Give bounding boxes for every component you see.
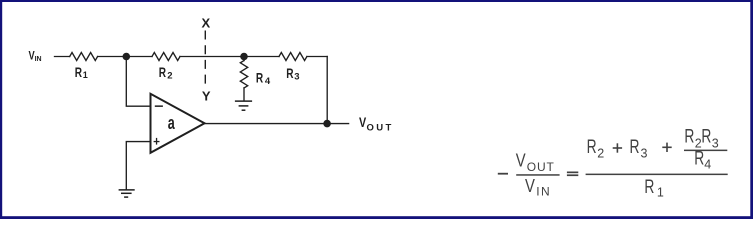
svg-text:R: R [644, 176, 654, 198]
ground under op-amp non-inverting input [119, 190, 135, 197]
svg-text:R: R [256, 70, 263, 86]
svg-text:3: 3 [641, 147, 648, 161]
svg-text:V: V [525, 175, 535, 196]
resistor R4 [240, 61, 247, 89]
ground under R4 [235, 101, 252, 110]
svg-text:3: 3 [294, 72, 299, 83]
svg-text:R: R [694, 148, 704, 170]
svg-text:IN: IN [35, 56, 42, 63]
wire op-amp output [205, 123, 349, 125]
label VOUT [359, 114, 391, 133]
formula: VOUT numerator [516, 150, 555, 175]
svg-text:1: 1 [83, 70, 88, 80]
label R2 [159, 64, 173, 81]
formula: equals sign [567, 172, 578, 177]
svg-text:OUT: OUT [527, 160, 555, 174]
wire non-inverting input [126, 142, 150, 190]
svg-text:R: R [684, 126, 694, 148]
label VIN [29, 49, 42, 63]
svg-text:R: R [587, 136, 597, 158]
node A junction dot [123, 53, 131, 61]
resistor R1 [70, 53, 98, 61]
formula: VOUT/VIN fraction bar [516, 174, 559, 176]
svg-text:R: R [75, 64, 82, 80]
svg-text:Y: Y [202, 89, 211, 104]
formula: R2R3 sub-numerator [684, 126, 718, 151]
border frame (left) [0, 0, 2, 219]
border frame (top) [0, 0, 753, 2]
wire node A to R2 [126, 56, 152, 58]
wire R4 to ground [243, 88, 245, 100]
label R1 [75, 64, 88, 80]
op-amp non-inverting input plus marker [154, 138, 160, 145]
svg-text:X: X [202, 15, 211, 30]
wire VIN lead [55, 56, 70, 58]
node X dashed marker line [204, 31, 206, 86]
svg-text:R: R [701, 126, 711, 148]
wire node B to R3 [244, 56, 279, 58]
wire R3 to right corner [307, 56, 327, 58]
border frame (bottom) [0, 216, 753, 219]
formula: main fraction bar [586, 174, 728, 176]
wire R1 to node A [98, 56, 127, 58]
formula: VIN denominator [525, 175, 550, 199]
formula: R1 denominator [644, 176, 664, 199]
svg-text:4: 4 [704, 158, 711, 172]
svg-text:R: R [159, 64, 166, 80]
svg-text:OUT: OUT [367, 122, 392, 133]
label R3 [286, 65, 299, 83]
svg-text:3: 3 [712, 137, 719, 151]
svg-text:2: 2 [167, 70, 172, 81]
formula: R3 term [630, 136, 648, 161]
svg-text:a: a [168, 113, 176, 133]
resistor R3 [279, 53, 307, 61]
svg-text:1: 1 [657, 185, 664, 199]
svg-text:V: V [516, 150, 526, 171]
op-amp inverting input minus marker [155, 105, 163, 107]
svg-text:IN: IN [536, 185, 550, 199]
svg-text:R: R [286, 65, 293, 81]
formula: minus sign [498, 173, 508, 175]
formula: R2R3/R4 fraction bar [684, 150, 727, 152]
svg-text:4: 4 [265, 76, 271, 87]
wire right vertical feedback [326, 57, 328, 124]
border frame (right) [750, 0, 753, 219]
resistor R2 [152, 53, 180, 61]
label R4 [256, 70, 271, 88]
svg-text:R: R [630, 136, 640, 158]
formula: R4 sub-denominator [694, 148, 711, 172]
wire R2 to node B [180, 56, 244, 58]
svg-text:2: 2 [597, 146, 604, 160]
node B junction dot [240, 53, 248, 61]
wire R4 top stub [243, 57, 245, 61]
formula: R2 term [587, 136, 605, 160]
wire inverting input [126, 57, 150, 107]
node VOUT junction dot [323, 120, 331, 128]
formula: first plus sign [613, 143, 622, 152]
formula: second plus sign [662, 143, 671, 152]
op-amp U1 triangle [151, 94, 205, 153]
